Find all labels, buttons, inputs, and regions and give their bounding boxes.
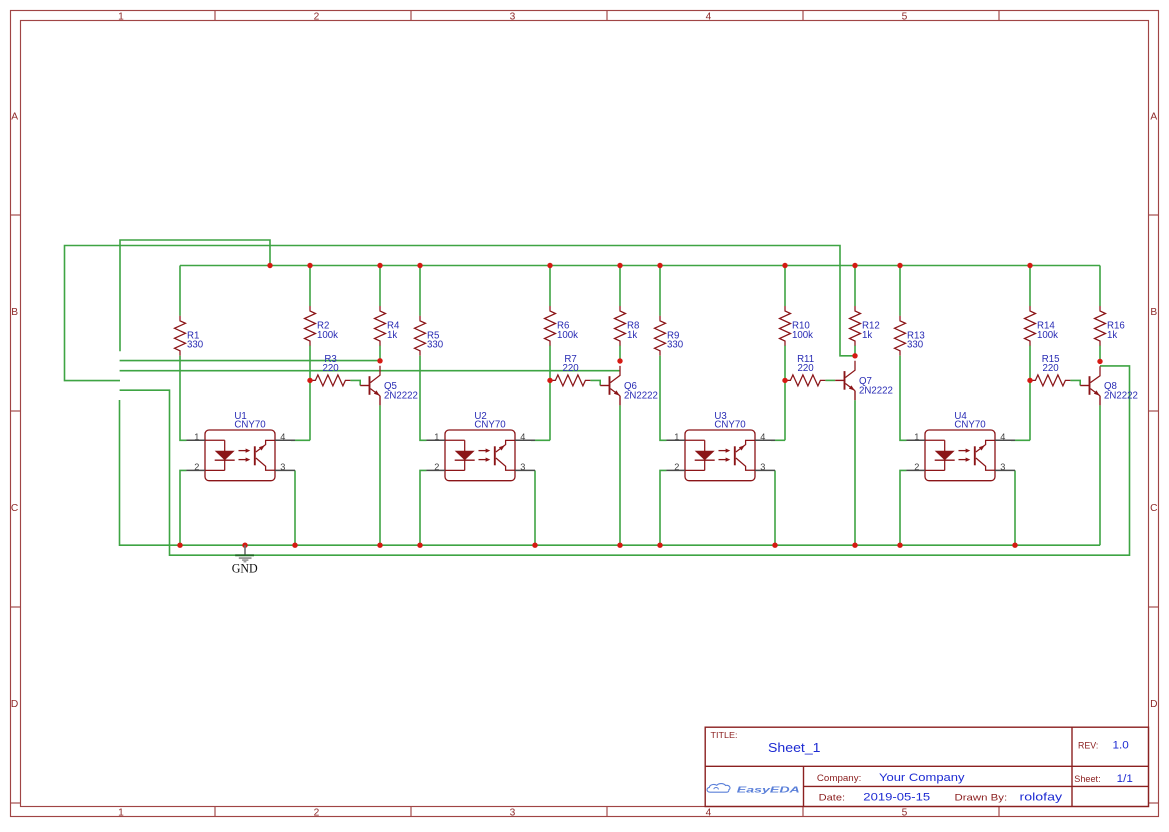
svg-text:B: B — [11, 307, 18, 318]
svg-text:330: 330 — [907, 340, 924, 351]
svg-text:2: 2 — [314, 807, 320, 818]
svg-text:CNY70: CNY70 — [954, 420, 986, 431]
svg-text:3: 3 — [510, 807, 516, 818]
svg-text:1k: 1k — [627, 330, 637, 341]
svg-text:2019-05-15: 2019-05-15 — [863, 792, 930, 804]
svg-text:220: 220 — [1043, 363, 1060, 374]
svg-text:4: 4 — [280, 432, 285, 442]
svg-text:1k: 1k — [387, 330, 397, 341]
svg-text:100k: 100k — [317, 330, 338, 341]
svg-text:CNY70: CNY70 — [474, 420, 506, 431]
svg-text:3: 3 — [510, 12, 516, 23]
svg-text:1k: 1k — [1107, 330, 1117, 341]
svg-text:EasyEDA: EasyEDA — [737, 784, 800, 794]
svg-text:1.0: 1.0 — [1113, 740, 1129, 752]
svg-text:2N2222: 2N2222 — [384, 390, 418, 401]
svg-text:A: A — [11, 112, 18, 123]
svg-text:5: 5 — [902, 807, 908, 818]
svg-text:Company:: Company: — [817, 773, 861, 784]
svg-text:CNY70: CNY70 — [234, 420, 266, 431]
svg-text:Sheet_1: Sheet_1 — [768, 740, 821, 755]
svg-text:3: 3 — [280, 462, 285, 472]
svg-text:220: 220 — [798, 363, 815, 374]
svg-text:2: 2 — [314, 12, 320, 23]
svg-text:2N2222: 2N2222 — [1104, 390, 1138, 401]
svg-text:3: 3 — [520, 462, 525, 472]
svg-text:Sheet:: Sheet: — [1074, 774, 1100, 785]
svg-text:2N2222: 2N2222 — [859, 385, 893, 396]
svg-text:CNY70: CNY70 — [714, 420, 746, 431]
svg-text:D: D — [11, 699, 18, 710]
svg-text:330: 330 — [667, 340, 684, 351]
svg-text:100k: 100k — [1037, 330, 1058, 341]
svg-text:4: 4 — [520, 432, 525, 442]
svg-text:1k: 1k — [862, 330, 872, 341]
svg-text:1: 1 — [914, 432, 919, 442]
svg-text:2: 2 — [434, 462, 439, 472]
svg-text:2: 2 — [914, 462, 919, 472]
svg-text:TITLE:: TITLE: — [711, 730, 738, 740]
svg-text:100k: 100k — [792, 330, 813, 341]
svg-text:2N2222: 2N2222 — [624, 390, 658, 401]
svg-text:4: 4 — [706, 807, 712, 818]
svg-text:100k: 100k — [557, 330, 578, 341]
svg-text:1/1: 1/1 — [1117, 773, 1133, 785]
svg-text:220: 220 — [563, 363, 580, 374]
svg-text:Drawn By:: Drawn By: — [955, 792, 1008, 803]
svg-text:220: 220 — [323, 363, 340, 374]
svg-text:4: 4 — [706, 12, 712, 23]
svg-text:1: 1 — [674, 432, 679, 442]
svg-text:GND: GND — [232, 560, 258, 575]
svg-text:330: 330 — [187, 340, 204, 351]
svg-text:1: 1 — [118, 12, 124, 23]
svg-text:D: D — [1150, 699, 1157, 710]
svg-text:330: 330 — [427, 340, 444, 351]
svg-text:4: 4 — [760, 432, 765, 442]
svg-text:A: A — [1150, 112, 1157, 123]
svg-text:3: 3 — [760, 462, 765, 472]
svg-text:C: C — [1150, 503, 1157, 514]
svg-text:1: 1 — [194, 432, 199, 442]
svg-text:2: 2 — [674, 462, 679, 472]
svg-text:Your Company: Your Company — [879, 772, 965, 784]
svg-text:rolofay: rolofay — [1020, 791, 1063, 803]
svg-text:4: 4 — [1000, 432, 1005, 442]
svg-text:2: 2 — [194, 462, 199, 472]
svg-text:C: C — [11, 503, 18, 514]
svg-text:REV:: REV: — [1078, 741, 1098, 752]
svg-text:1: 1 — [434, 432, 439, 442]
svg-text:Date:: Date: — [819, 792, 845, 803]
svg-text:5: 5 — [902, 12, 908, 23]
svg-text:B: B — [1150, 307, 1157, 318]
svg-text:3: 3 — [1000, 462, 1005, 472]
svg-text:1: 1 — [118, 807, 124, 818]
